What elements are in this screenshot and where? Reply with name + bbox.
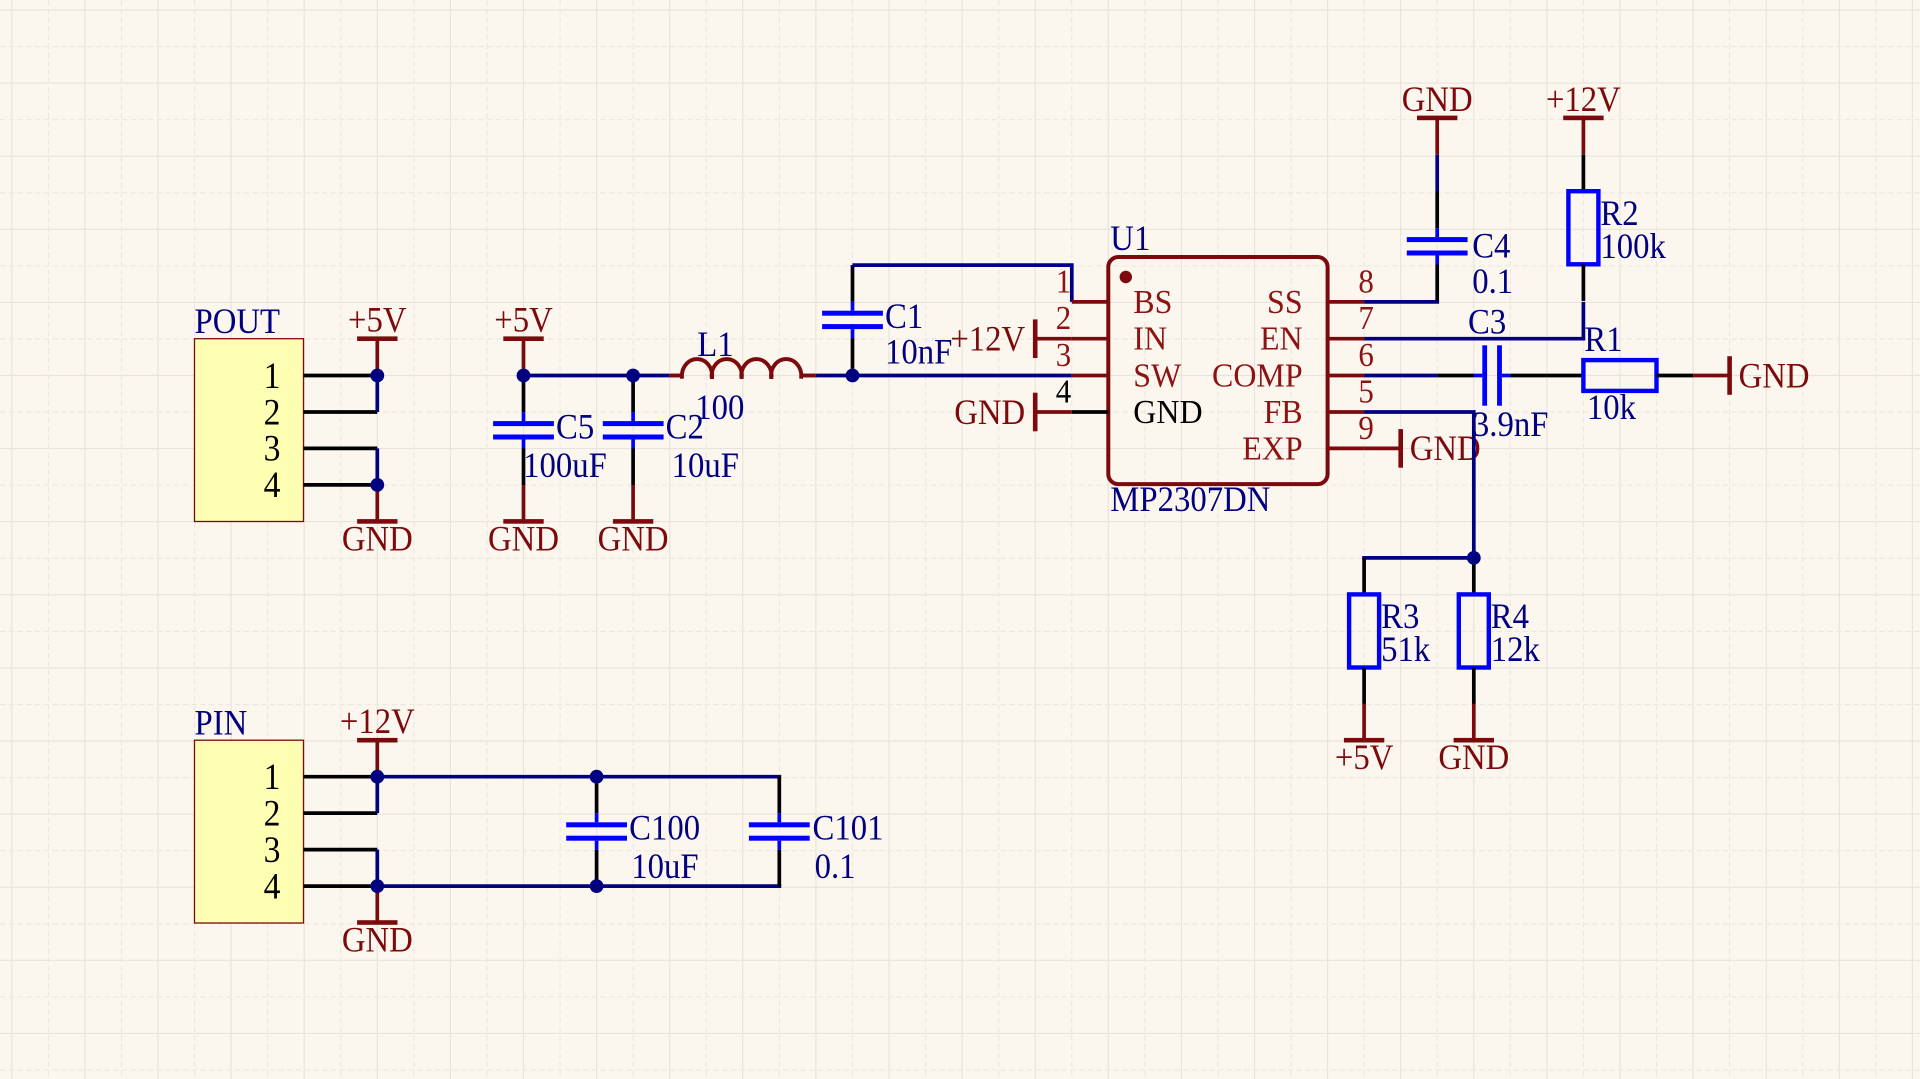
svg-text:1: 1 (1056, 263, 1071, 301)
svg-text:GND: GND (488, 519, 559, 559)
svg-text:0.1: 0.1 (815, 847, 856, 887)
svg-text:C5: C5 (556, 407, 594, 447)
svg-text:FB: FB (1264, 394, 1303, 431)
svg-text:+12V: +12V (1546, 80, 1621, 120)
svg-text:BS: BS (1133, 284, 1172, 321)
svg-text:GND: GND (598, 519, 669, 559)
svg-text:7: 7 (1358, 300, 1373, 338)
svg-text:10uF: 10uF (672, 445, 739, 485)
svg-text:EXP: EXP (1242, 431, 1302, 468)
svg-text:+12V: +12V (340, 702, 415, 742)
svg-text:SS: SS (1267, 284, 1303, 321)
svg-text:9: 9 (1358, 410, 1373, 448)
svg-text:100uF: 100uF (523, 445, 607, 485)
svg-text:10k: 10k (1587, 388, 1637, 428)
svg-text:COMP: COMP (1212, 358, 1303, 395)
svg-text:+5V: +5V (494, 300, 553, 340)
svg-text:GND: GND (1438, 738, 1509, 778)
svg-text:3.9nF: 3.9nF (1473, 405, 1549, 445)
svg-text:EN: EN (1260, 321, 1303, 358)
svg-text:R1: R1 (1584, 320, 1622, 360)
svg-text:+5V: +5V (1335, 738, 1394, 778)
svg-text:C3: C3 (1468, 302, 1506, 342)
svg-text:+5V: +5V (348, 300, 407, 340)
svg-text:10nF: 10nF (885, 332, 952, 372)
svg-text:IN: IN (1133, 321, 1167, 358)
svg-text:GND: GND (1739, 356, 1810, 396)
svg-text:C1: C1 (885, 297, 923, 337)
svg-text:U1: U1 (1110, 219, 1150, 259)
svg-text:SW: SW (1133, 358, 1182, 395)
svg-text:3: 3 (1056, 337, 1071, 375)
svg-text:C100: C100 (629, 808, 700, 848)
svg-text:51k: 51k (1381, 630, 1431, 670)
svg-text:6: 6 (1358, 337, 1373, 375)
svg-text:GND: GND (1133, 394, 1202, 431)
svg-text:GND: GND (1402, 80, 1473, 120)
svg-text:8: 8 (1358, 263, 1373, 301)
svg-text:MP2307DN: MP2307DN (1110, 480, 1270, 520)
svg-text:+12V: +12V (950, 319, 1025, 359)
svg-text:10uF: 10uF (631, 847, 698, 887)
svg-text:100k: 100k (1600, 226, 1666, 266)
svg-text:2: 2 (1056, 300, 1071, 338)
svg-text:GND: GND (1410, 429, 1481, 469)
svg-text:4: 4 (264, 464, 281, 506)
svg-text:100: 100 (695, 388, 744, 428)
svg-text:GND: GND (954, 392, 1025, 432)
svg-text:GND: GND (342, 920, 413, 960)
svg-text:4: 4 (264, 865, 281, 907)
svg-text:GND: GND (342, 519, 413, 559)
svg-text:C4: C4 (1472, 226, 1510, 266)
svg-text:POUT: POUT (195, 302, 281, 342)
svg-text:0.1: 0.1 (1472, 261, 1513, 301)
svg-text:PIN: PIN (195, 703, 248, 743)
svg-text:12k: 12k (1491, 630, 1541, 670)
svg-text:C101: C101 (813, 808, 884, 848)
svg-text:5: 5 (1358, 373, 1373, 411)
svg-text:4: 4 (1056, 373, 1071, 411)
svg-text:L1: L1 (697, 325, 733, 365)
